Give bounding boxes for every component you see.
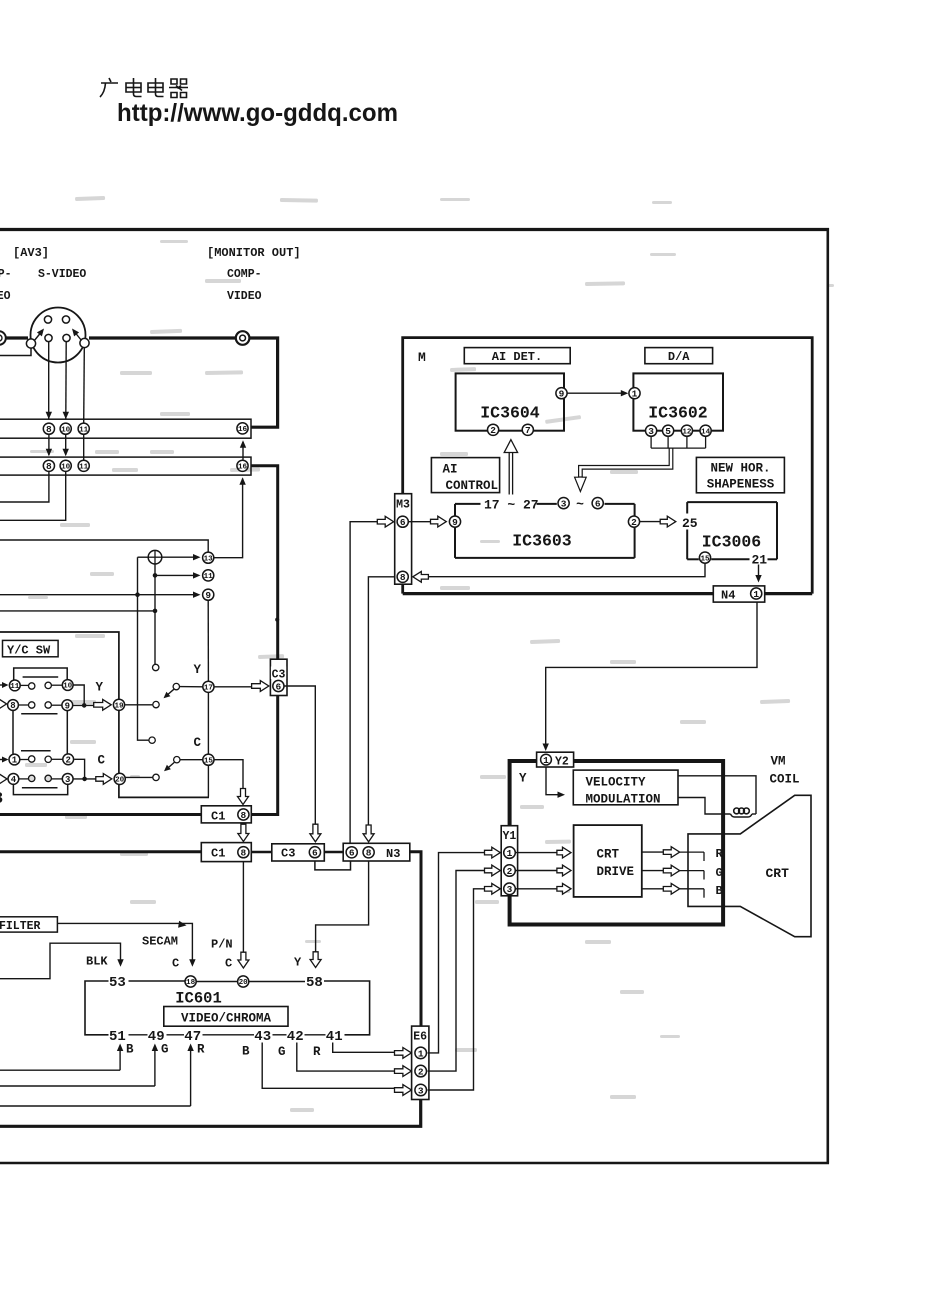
wire 19 to contact	[125, 704, 153, 706]
svg-text:COMP-: COMP-	[227, 268, 262, 281]
svg-text:2: 2	[631, 517, 637, 528]
switch bar	[21, 750, 51, 752]
svg-text:43: 43	[254, 1029, 271, 1045]
connector C3 box	[270, 659, 287, 695]
label DRIVE	[597, 865, 635, 879]
svg-text:8: 8	[400, 572, 406, 583]
wire VM bottom to coil	[678, 798, 731, 815]
svg-text:25: 25	[682, 516, 698, 531]
node 17	[203, 681, 214, 692]
block arrow into M3-8	[413, 571, 429, 582]
pin 8	[363, 847, 374, 859]
svg-text:Y: Y	[194, 663, 202, 677]
label N3	[386, 847, 400, 861]
label IC3602	[648, 404, 707, 423]
svg-text:11: 11	[204, 573, 214, 581]
svg-text:7: 7	[525, 425, 531, 436]
svg-text:2: 2	[490, 425, 496, 436]
wire C3-6 to lower C3	[284, 686, 315, 826]
wire	[89, 336, 236, 339]
pin 1	[751, 588, 762, 600]
label NEW HOR.	[710, 462, 770, 476]
connector strip band row2	[0, 457, 251, 475]
junction	[153, 573, 158, 578]
svg-text:R: R	[313, 1045, 321, 1059]
label AV3	[13, 246, 49, 260]
wire 15 to M3-8	[429, 563, 705, 576]
svg-text:B: B	[242, 1045, 250, 1059]
NEW HOR SHAPENESS box	[696, 457, 784, 492]
wire sum to 13	[162, 554, 201, 560]
double wire IC3602 to IC3603	[579, 448, 673, 477]
svg-text:R: R	[197, 1043, 205, 1057]
wire y611	[0, 610, 155, 612]
svg-text:6: 6	[400, 517, 406, 528]
label P/N	[211, 938, 233, 952]
switch row pins 8-9	[8, 700, 73, 712]
pin 2	[415, 1065, 427, 1077]
svg-text:C: C	[225, 957, 232, 971]
block arrow to 25	[660, 516, 676, 527]
wire FILTER to IC601-18	[57, 921, 195, 967]
label CRT	[597, 847, 620, 861]
pin 10	[60, 423, 71, 434]
svg-text:2: 2	[418, 1067, 424, 1078]
svg-text:6: 6	[349, 848, 355, 859]
svg-text:NEW HOR.: NEW HOR.	[710, 462, 770, 476]
wire Y1-3 to CRT DRIVE	[515, 888, 556, 890]
label 21	[752, 553, 768, 568]
wire	[325, 851, 344, 854]
svg-text:http://www.go-gddq.com: http://www.go-gddq.com	[117, 99, 398, 127]
pin 6	[309, 847, 320, 859]
label IC3604	[480, 404, 540, 423]
svg-text:[AV3]: [AV3]	[13, 246, 49, 260]
label IC3006	[702, 533, 761, 552]
label Y2	[555, 755, 569, 768]
svg-text:16: 16	[238, 426, 248, 434]
connector Y1 box	[501, 826, 517, 896]
label ~	[576, 497, 585, 512]
block arrow into Y1-3	[485, 883, 501, 894]
arrow into 58	[310, 952, 321, 968]
svg-text:CRT: CRT	[597, 847, 620, 861]
svg-text:Y1: Y1	[502, 830, 516, 843]
pin 11	[78, 460, 89, 471]
label VIDEO	[227, 290, 262, 303]
svg-text:10: 10	[61, 464, 71, 472]
svg-text:IC3604: IC3604	[480, 404, 540, 423]
label Y1	[502, 830, 516, 843]
svg-text:16: 16	[238, 464, 248, 472]
contact lower C	[153, 774, 159, 780]
wire N4-1 down to Y2	[543, 602, 758, 751]
connector S-VIDEO jack	[26, 308, 89, 363]
pin 3	[558, 498, 569, 510]
block arrow into E6-3	[395, 1085, 412, 1096]
switch row pins 4-3	[8, 774, 73, 786]
svg-text:D/A: D/A	[668, 350, 690, 364]
svg-text:IC3006: IC3006	[702, 533, 761, 552]
svg-text:10: 10	[61, 426, 71, 434]
switch row pins 11-10	[9, 680, 73, 692]
connector N3 box	[343, 843, 410, 861]
svg-text:41: 41	[326, 1029, 343, 1045]
svg-text:SHAPENESS: SHAPENESS	[707, 478, 775, 492]
svg-text:15: 15	[700, 555, 710, 563]
svg-text:C: C	[98, 754, 106, 768]
cut text 3	[0, 790, 3, 809]
pin 3	[504, 883, 516, 895]
VELOCITY MODULATION box	[573, 770, 678, 805]
connector strip band AV3 row1	[0, 419, 251, 438]
node 20	[114, 773, 125, 784]
pin 3	[415, 1084, 427, 1096]
label C3	[281, 847, 295, 861]
wire row1 to row2 pin10	[63, 435, 69, 457]
node 9	[203, 589, 214, 601]
wire	[252, 851, 272, 854]
svg-text:1: 1	[12, 756, 18, 766]
svg-text:P/N: P/N	[211, 938, 233, 952]
wire sum down	[154, 564, 156, 664]
IC601 right bracket	[324, 981, 370, 1035]
wire 10 to 9 row junction	[73, 685, 86, 708]
svg-text:3: 3	[65, 775, 70, 785]
label D/A	[668, 350, 690, 364]
block arrow into E6-2	[395, 1066, 412, 1077]
wire G out	[642, 865, 704, 879]
inductor VM coil	[731, 808, 757, 817]
label C1	[211, 809, 225, 823]
wire 9 to 1	[567, 390, 628, 396]
switch bar	[22, 787, 58, 789]
pin 2	[504, 865, 516, 877]
svg-text:DRIVE: DRIVE	[597, 865, 635, 879]
svg-text:8: 8	[10, 701, 15, 711]
pin 2	[628, 516, 639, 528]
svg-text:M: M	[418, 350, 426, 365]
svg-text:2: 2	[507, 866, 513, 877]
label C	[225, 957, 232, 971]
svg-text:51: 51	[109, 1029, 126, 1045]
label SHAPENESS	[707, 478, 775, 492]
svg-text:10: 10	[63, 683, 73, 691]
label Y	[96, 681, 104, 695]
wire C3 down to C1 row1	[252, 696, 278, 815]
wire 20 to contact	[125, 776, 153, 778]
wire row2 pin10 out	[0, 472, 66, 521]
label pins 17-27	[484, 498, 539, 513]
svg-text:3: 3	[0, 790, 3, 809]
svg-text:9: 9	[452, 517, 458, 528]
wire 9 to node 19	[73, 704, 94, 706]
label Y	[294, 956, 302, 970]
Y/C SW outer box	[0, 632, 209, 797]
wire into 51	[0, 1044, 123, 1071]
contact upper Y	[153, 664, 159, 670]
pin 8	[43, 460, 54, 472]
wire B out	[642, 883, 704, 897]
wire into 47	[0, 1044, 194, 1107]
arrow into IC3603 pins 3-6	[575, 477, 587, 492]
block arrow into Y1-2	[485, 865, 501, 876]
IC3602 box	[633, 373, 723, 430]
label G	[161, 1043, 169, 1057]
svg-text:1: 1	[753, 589, 759, 600]
connector C1 row1 box	[201, 806, 251, 823]
pin 9	[449, 516, 460, 528]
wire vertical x137	[138, 557, 149, 740]
CRT tube	[688, 795, 811, 936]
IC3603 box	[455, 504, 635, 558]
pin 8	[238, 847, 249, 859]
switch bar	[23, 676, 59, 678]
connector C1 row2 box	[201, 843, 251, 862]
svg-text:S-VIDEO: S-VIDEO	[38, 268, 86, 281]
wire C1-8 down to IC601-20	[242, 862, 244, 952]
svg-text:3: 3	[507, 884, 513, 895]
svg-text:VELOCITY: VELOCITY	[586, 775, 647, 789]
wire N3-8 down to IC601-58	[316, 861, 369, 952]
block arrow	[557, 883, 571, 894]
IC601 bottom pin row	[109, 1029, 343, 1045]
svg-text:8: 8	[46, 461, 52, 472]
wire sum left input	[138, 556, 149, 558]
svg-text:~: ~	[576, 497, 584, 512]
label M	[418, 350, 426, 365]
pin 15	[699, 552, 710, 563]
wire pin stubs to bus	[651, 437, 706, 449]
pin 1	[415, 1047, 427, 1059]
header Chinese logo text 广电电器 (drawn strokes)	[100, 78, 188, 98]
wire E6-3 up to Y1-3	[428, 889, 485, 1090]
wire Y2-1 to VM	[546, 767, 565, 798]
VIDEO/CHROMA box	[164, 1007, 288, 1027]
arrow up to IC3604	[504, 440, 517, 495]
svg-text:IC3602: IC3602	[648, 404, 707, 423]
wire S-video pin11 down	[83, 348, 86, 423]
pin 8	[43, 423, 54, 435]
pin 6	[273, 680, 284, 692]
label CRT	[766, 866, 790, 881]
connector MONITOR OUT comp-video jack	[236, 331, 250, 345]
junction	[153, 609, 158, 614]
arrow into pin 8	[0, 699, 7, 710]
label FILTER	[0, 920, 41, 933]
label AI DET.	[492, 350, 542, 364]
Y/C SW label	[7, 643, 51, 657]
label Y	[194, 663, 202, 677]
wire M3-6 to IC3603-9	[409, 521, 431, 523]
label B	[126, 1043, 134, 1057]
wire 43 to E6-3	[262, 1043, 394, 1089]
switch top bracket	[14, 668, 67, 680]
svg-text:11: 11	[10, 683, 20, 691]
connector E6 box	[412, 1026, 429, 1099]
wire R out	[642, 847, 704, 861]
pin 18	[185, 976, 196, 987]
svg-text:19: 19	[114, 703, 124, 711]
wire into 49	[0, 1044, 158, 1087]
D/A label box	[645, 348, 713, 364]
wire Y1-2 to CRT DRIVE	[515, 870, 556, 872]
label IC3603	[512, 532, 572, 551]
arrow into pin 4	[0, 774, 7, 785]
contact upper C	[149, 737, 155, 743]
svg-text:1: 1	[632, 389, 638, 400]
svg-text:2: 2	[65, 756, 70, 766]
svg-text:R: R	[716, 847, 724, 861]
wire BLK to IC601-53	[0, 943, 124, 979]
switch bottom bracket	[13, 785, 67, 795]
Y/C SW label box	[3, 640, 59, 656]
wire to node 9	[0, 592, 201, 598]
svg-text:IC601: IC601	[175, 990, 222, 1008]
wire 21 to N4	[755, 565, 761, 583]
wire 15 down to box bottom	[207, 765, 209, 796]
wire 17 down to 15	[207, 692, 209, 754]
label R	[313, 1045, 321, 1059]
wire 42 to E6-2	[297, 1043, 395, 1072]
svg-text:N3: N3	[386, 847, 400, 861]
pin 2	[488, 424, 499, 436]
label G	[716, 866, 723, 880]
pin 12	[681, 425, 692, 436]
block arrow to 20	[96, 774, 112, 785]
svg-text:53: 53	[109, 975, 126, 991]
svg-text:1: 1	[418, 1048, 424, 1059]
wire 15 down-right to C1	[214, 760, 243, 789]
svg-text:C: C	[172, 957, 179, 971]
IC3006 box	[687, 502, 777, 559]
label BLK	[86, 955, 108, 969]
label COMP- (cut)	[0, 268, 12, 281]
arrow into C3 row2 pin6	[310, 824, 321, 842]
wire 15 to wiper	[180, 759, 203, 761]
svg-text:SECAM: SECAM	[142, 935, 178, 949]
svg-text:G: G	[716, 866, 723, 880]
wire thick left to C1 row1	[0, 813, 201, 816]
wire 17 to wiper	[180, 686, 203, 688]
wire circle13 up to row2 pin16	[214, 477, 246, 557]
label SECAM	[142, 935, 178, 949]
label B	[716, 884, 723, 898]
pin 6	[397, 516, 408, 528]
wire E6-2 up to Y1-2	[428, 871, 485, 1072]
svg-text:VIDEO: VIDEO	[227, 290, 262, 303]
svg-text:VIDEO: VIDEO	[0, 290, 11, 303]
wire	[6, 336, 29, 339]
svg-text:11: 11	[79, 426, 89, 434]
wire row1 to row2 pin8	[46, 435, 52, 457]
svg-text:C1: C1	[211, 809, 225, 823]
label COMP-	[227, 268, 262, 281]
svg-text:18: 18	[186, 979, 196, 987]
header URL text	[117, 99, 398, 127]
wire S-video pin10 down	[63, 342, 69, 419]
svg-text:8: 8	[241, 810, 247, 821]
node 11	[203, 570, 214, 581]
switch row pins 1-2	[9, 754, 74, 766]
label Y	[519, 772, 527, 786]
wire 2 out	[640, 521, 660, 523]
block arrow	[557, 847, 571, 858]
node 19	[113, 699, 124, 710]
connector Y2 box	[537, 752, 574, 767]
wire 17 to C3	[214, 686, 252, 688]
svg-text:12: 12	[682, 428, 692, 436]
wire	[250, 338, 278, 427]
svg-text:G: G	[161, 1043, 169, 1057]
svg-text:17 ~ 27: 17 ~ 27	[484, 498, 539, 513]
pin 10	[60, 460, 71, 471]
label R	[197, 1043, 205, 1057]
IC601 left bracket	[85, 981, 109, 1035]
svg-text:IC3603: IC3603	[512, 532, 572, 551]
FILTER box	[0, 917, 57, 932]
pin 20	[238, 976, 249, 987]
label C3	[271, 667, 286, 682]
svg-text:20: 20	[239, 979, 249, 987]
arrow into C1 row1 pin8	[238, 789, 249, 805]
svg-text:21: 21	[752, 553, 768, 568]
wire row1 to row2 pin11	[83, 435, 85, 461]
label B	[242, 1045, 250, 1059]
svg-text:58: 58	[306, 975, 323, 991]
svg-text:AI DET.: AI DET.	[492, 350, 542, 364]
svg-text:C: C	[194, 736, 202, 750]
wire to node 13	[0, 540, 208, 552]
label COIL	[770, 773, 800, 787]
wire VM top to coil	[678, 776, 756, 814]
svg-text:15: 15	[204, 757, 214, 765]
svg-text:11: 11	[79, 464, 89, 472]
svg-text:3: 3	[648, 426, 654, 437]
junction	[135, 592, 140, 597]
label VELOCITY	[586, 775, 647, 789]
svg-text:COMP-: COMP-	[0, 268, 12, 281]
switch bar	[21, 713, 57, 715]
block arrow into 9	[431, 516, 447, 527]
svg-text:6: 6	[276, 681, 282, 692]
svg-text:Y/C SW: Y/C SW	[7, 643, 51, 657]
svg-text:M3: M3	[396, 499, 410, 512]
M box outline	[403, 338, 813, 594]
svg-text:CONTROL: CONTROL	[446, 479, 499, 493]
svg-text:8: 8	[46, 424, 52, 435]
label VIDEO (cut)	[0, 290, 11, 303]
label VM	[771, 755, 786, 769]
svg-text:VIDEO/CHROMA: VIDEO/CHROMA	[181, 1011, 272, 1025]
wire band2-16 down to C3	[252, 466, 278, 659]
node 13	[203, 552, 214, 563]
svg-text:E6: E6	[413, 1031, 427, 1044]
svg-text:MODULATION: MODULATION	[586, 792, 661, 806]
svg-text:C3: C3	[281, 847, 295, 861]
svg-text:20: 20	[115, 777, 125, 785]
pin 16	[237, 423, 248, 434]
pin 3	[646, 425, 657, 437]
svg-text:8: 8	[241, 848, 247, 859]
svg-text:B: B	[716, 884, 723, 898]
label S-VIDEO	[38, 268, 86, 281]
svg-text:6: 6	[312, 848, 318, 859]
pin 5	[663, 425, 674, 437]
label N4	[721, 589, 735, 603]
arrow into pin 11	[0, 682, 9, 688]
arrow into N3-8	[363, 825, 374, 842]
